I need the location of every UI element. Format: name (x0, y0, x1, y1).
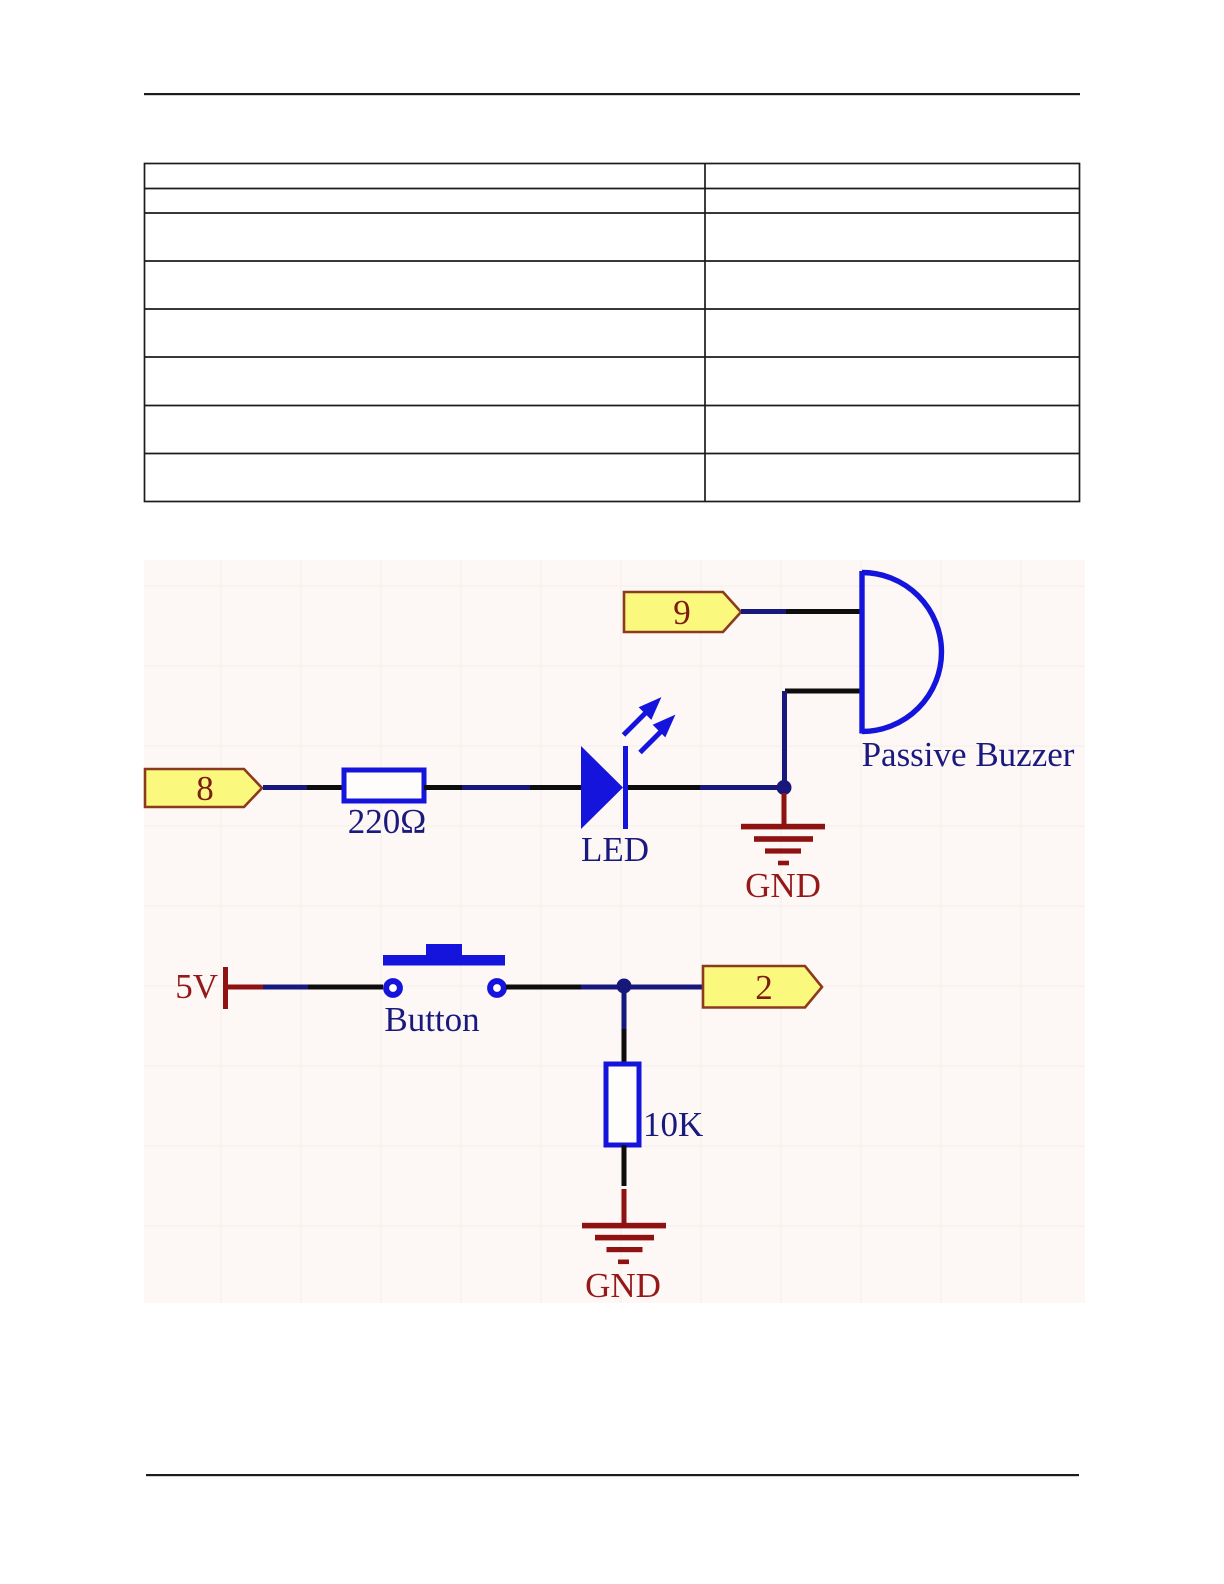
bottom rule (146, 1474, 1079, 1476)
svg-text:GND: GND (585, 1266, 661, 1305)
svg-text:10K: 10K (643, 1105, 703, 1144)
power lead (263, 985, 308, 990)
svg-text:5V: 5V (175, 967, 218, 1006)
ground GND2 (582, 1189, 666, 1264)
pin 8 lead (263, 785, 307, 790)
svg-text:Passive Buzzer: Passive Buzzer (862, 735, 1075, 774)
svg-text:9: 9 (673, 593, 691, 632)
LED arrow 1 (624, 702, 671, 753)
resistor R2 10K (606, 1064, 639, 1145)
svg-text:LED: LED (581, 830, 649, 869)
svg-text:220Ω: 220Ω (348, 802, 427, 841)
resistor R1 220 ohm (344, 770, 424, 801)
svg-text:Button: Button (384, 1000, 479, 1039)
LED D1 (581, 702, 671, 829)
wire flag9 to buzzer (786, 609, 862, 614)
button S1 (383, 944, 505, 995)
pin flag 9 (624, 592, 741, 632)
power 5V symbol (223, 967, 263, 1009)
schematic grid (144, 560, 1085, 1303)
wire junction down (622, 987, 627, 1029)
wire buzzer to junction (vertical) (782, 691, 787, 787)
wire resistor to ground (622, 1145, 627, 1186)
schematic background (144, 560, 1085, 1303)
top rule (144, 93, 1080, 95)
ground GND1 (741, 793, 825, 865)
wire 5V to button (308, 985, 383, 990)
wire button to junction (506, 985, 581, 990)
buzzer bottom pin wire (785, 689, 862, 694)
wire LED to junction (628, 785, 700, 790)
svg-text:2: 2 (755, 968, 773, 1007)
LED arrow 2 (640, 729, 664, 753)
junction node (777, 780, 792, 795)
svg-text:GND: GND (745, 866, 821, 905)
wire resistor to LED (424, 785, 462, 790)
pin 9 lead (741, 609, 786, 614)
svg-text:8: 8 (196, 769, 214, 808)
pin flag 2 (703, 966, 822, 1008)
passive buzzer B1 (862, 571, 941, 734)
wire pin8 to resistor (307, 785, 343, 790)
junction node 2 (617, 979, 632, 994)
table (145, 164, 1080, 502)
pin flag 8 (145, 769, 262, 808)
